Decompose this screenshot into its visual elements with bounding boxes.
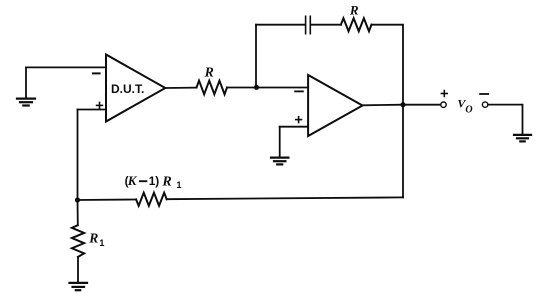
wire - output terminal to right ground <box>488 105 523 135</box>
wire + input of U2 <box>280 126 308 128</box>
svg-text:1): 1) <box>149 174 160 188</box>
minus sign at U2 input <box>295 90 303 92</box>
wire riser U2 + input to ground <box>279 127 281 158</box>
svg-text:1: 1 <box>177 180 182 190</box>
wire top feedback left <box>256 24 305 26</box>
capacitor C1 <box>306 16 311 33</box>
ground (left, inverting input of D.U.T.) <box>17 67 35 105</box>
dash in (K-1) label <box>139 180 147 182</box>
output terminal - (open circle) <box>482 102 487 107</box>
plus sign above + terminal <box>441 91 447 97</box>
resistor (K-1)R1 <box>136 193 167 206</box>
wire node A down to resistor R1 <box>77 200 79 225</box>
minus sign at D.U.T. input <box>93 72 100 74</box>
node C junction dot <box>400 102 405 107</box>
wire resistor to node A <box>78 199 137 202</box>
resistor R (feedback) <box>341 18 372 31</box>
wire right vertical below node to bottom corner <box>402 105 404 198</box>
op-amp U1 D.U.T. <box>106 55 165 122</box>
resistor R (series) <box>197 81 228 95</box>
svg-text:D.U.T.: D.U.T. <box>111 82 144 96</box>
node A junction dot <box>75 197 80 202</box>
wire feedback riser up from node B <box>255 25 257 88</box>
ground (right, output return) <box>514 135 531 142</box>
ground (U2 non-inverting input) <box>271 158 288 165</box>
wire capacitor to resistor R (feedback) <box>311 24 341 26</box>
node B junction dot <box>254 85 259 90</box>
wire D.U.T. output to resistor R <box>165 87 196 89</box>
svg-text:VO: VO <box>457 97 472 116</box>
wire bottom feedback: corner to resistor <box>167 197 403 199</box>
svg-text:R: R <box>161 174 171 189</box>
plus sign at U2 input <box>296 117 302 123</box>
svg-text:R: R <box>349 3 359 18</box>
wire R1 to bottom ground <box>77 257 79 283</box>
svg-text:K: K <box>127 173 138 188</box>
output terminal + (open circle) <box>441 102 446 107</box>
svg-text:R: R <box>88 230 98 245</box>
svg-text:1: 1 <box>99 238 104 248</box>
wire ground to D.U.T. minus input <box>26 66 106 68</box>
svg-text:R: R <box>204 65 214 80</box>
wire top feedback right + right vertical down to output node <box>372 25 404 105</box>
minus sign above - terminal <box>480 93 488 95</box>
wire node C to + output terminal <box>403 104 441 106</box>
wire riser from + input down to node A <box>77 110 79 201</box>
wire U2 output to node C <box>363 104 404 107</box>
op-amp U2 <box>308 75 362 136</box>
wire + input of D.U.T. <box>78 109 107 111</box>
plus sign at D.U.T. input <box>97 103 103 109</box>
wire R to op-amp U2 minus input <box>227 87 308 89</box>
resistor R1 <box>72 225 84 257</box>
ground (bottom, R1 return) <box>70 283 88 290</box>
